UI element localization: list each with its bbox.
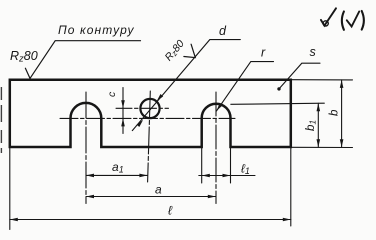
hole [140, 99, 159, 118]
top-right rest-of-surfaces symbol: check with circle [321, 8, 336, 25]
svg-text:c: c [106, 91, 118, 97]
extension line bottom edge right (b,b1) [291, 146, 353, 148]
centerline left slot vertical [85, 92, 87, 204]
dimension l line [10, 219, 291, 221]
extension line slot wall left (l1) [201, 147, 203, 183]
arrow b bottom [340, 139, 344, 147]
arrow l right [283, 218, 291, 222]
arrow l left [10, 218, 18, 222]
extension line left edge down [9, 147, 11, 230]
arrow b1 bottom [317, 139, 321, 147]
parenthesis right [362, 11, 364, 30]
extension line top edge right (b) [291, 79, 353, 81]
centerline slots horizontal [60, 117, 235, 119]
svg-text:s: s [310, 45, 316, 59]
leader s [279, 63, 320, 89]
centerline hole horizontal [116, 107, 169, 109]
arrow r at slot arc [215, 103, 223, 112]
dimension b1 line [317, 103, 319, 147]
arrow b top [340, 80, 344, 88]
check in parentheses [347, 12, 359, 27]
scan artifact left page edge [0, 87, 2, 153]
arrow l1 left [202, 174, 210, 178]
arrow d lower at hole [137, 119, 145, 127]
plate outline with two bottom slots [10, 80, 291, 147]
arrow l1 right [223, 174, 231, 178]
svg-text:b1: b1 [305, 120, 318, 131]
dimension b line [341, 80, 343, 147]
svg-text:d: d [219, 24, 227, 38]
roughness check on d leader [184, 44, 195, 57]
centerline right slot vertical [215, 92, 217, 204]
extension line slot top right (b1) [231, 103, 324, 104]
leader s dot [277, 87, 280, 90]
svg-text:b: b [329, 109, 341, 116]
arrow a1 right [139, 174, 147, 178]
arrow d upper at hole [155, 94, 163, 102]
dimension l1 line [199, 175, 255, 177]
svg-text:a: a [155, 183, 162, 197]
leader d with Rz80 check [132, 40, 240, 131]
dimension c line [122, 88, 124, 134]
parenthesis left [342, 12, 344, 30]
arrow a left [86, 195, 94, 199]
svg-text:Rz80: Rz80 [10, 49, 38, 65]
leader По контуру with roughness check [25, 41, 140, 79]
leader r [217, 62, 274, 111]
arrow c top [121, 100, 125, 108]
arrow a right [208, 195, 216, 199]
centerline hole vertical [148, 91, 151, 182]
dimension a1 line [86, 174, 147, 176]
extension line right edge down [290, 147, 292, 226]
arrow b1 top [317, 103, 321, 111]
dimension a line [86, 196, 216, 198]
arrow c bottom [121, 118, 125, 126]
extension line slot wall right (l1) [230, 147, 232, 183]
arrow a1 left [86, 174, 94, 178]
svg-text:По контуру: По контуру [58, 23, 135, 37]
